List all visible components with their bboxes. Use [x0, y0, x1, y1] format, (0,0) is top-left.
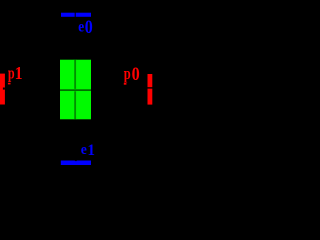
svg-text:e: e [81, 142, 87, 158]
electrode p0 (right, dashed red bar) [148, 74, 153, 105]
electrode e1 (bottom, blue bar with notch) [61, 160, 91, 165]
svg-text:1: 1 [15, 63, 23, 83]
electrode p1 (left, red bar with notch) [0, 74, 5, 105]
label p1 [8, 63, 23, 85]
svg-text:e: e [78, 19, 84, 36]
vertical grid line [74, 60, 77, 120]
electrode e0 (top, dashed blue bar) [61, 13, 91, 17]
svg-text:p: p [124, 64, 131, 83]
label p0 [124, 64, 140, 85]
label e0 [78, 18, 93, 38]
quantum dot array (green 2x2 plaquette) [60, 60, 91, 120]
svg-text:1: 1 [87, 142, 95, 159]
horizontal grid line [60, 89, 91, 91]
svg-text:0: 0 [85, 18, 93, 38]
svg-text:0: 0 [132, 64, 140, 85]
label e1 [81, 142, 95, 159]
